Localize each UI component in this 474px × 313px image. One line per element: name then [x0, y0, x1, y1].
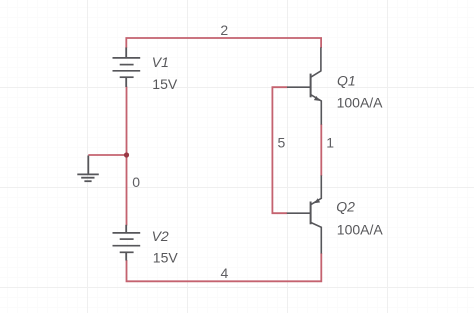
wire net 2 (top rail)	[126, 38, 321, 48]
wire net 5 (base loop)	[272, 87, 287, 213]
svg-text:15V: 15V	[152, 76, 178, 92]
wire net 1 (emitter link)	[320, 124, 322, 176]
svg-text:15V: 15V	[153, 250, 179, 266]
wire ground branch	[88, 154, 126, 156]
svg-text:5: 5	[278, 134, 286, 150]
battery V2	[113, 225, 141, 261]
transistor Q1 (NPN)	[287, 47, 321, 124]
svg-text:4: 4	[221, 265, 229, 281]
Q2 emitter arrow	[314, 198, 320, 203]
svg-text:Q1: Q1	[337, 72, 356, 88]
ground	[77, 156, 99, 182]
svg-text:0: 0	[132, 174, 140, 190]
node 0 junction dot	[124, 152, 129, 157]
svg-text:100A/A: 100A/A	[337, 95, 384, 111]
wire net 0 (left rail V1- to V2+)	[126, 87, 128, 226]
wire net 4 (bottom rail)	[127, 253, 322, 281]
svg-text:V2: V2	[152, 228, 169, 244]
svg-text:Q2: Q2	[336, 198, 355, 214]
Q1 emitter arrow	[314, 96, 320, 101]
svg-text:2: 2	[220, 22, 228, 38]
battery V1	[113, 48, 141, 88]
svg-text:100A/A: 100A/A	[337, 222, 384, 238]
svg-text:V1: V1	[152, 54, 169, 70]
transistor Q2 (PNP)	[287, 175, 322, 253]
svg-text:1: 1	[326, 134, 334, 150]
